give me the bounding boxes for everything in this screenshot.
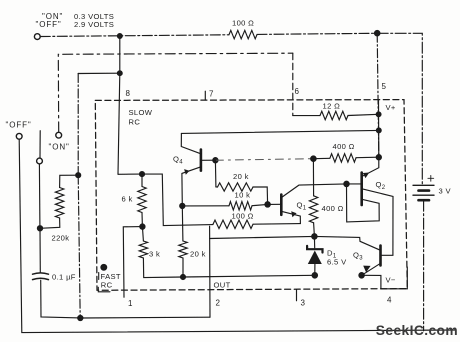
wire pin8 node to 6k xyxy=(118,173,142,175)
wire zener-top rail to Q3 collector xyxy=(210,236,381,250)
leads 20k vertical xyxy=(181,206,184,241)
battery 3V xyxy=(413,184,434,186)
svg-text:100 Ω: 100 Ω xyxy=(232,19,254,28)
switch common terminal xyxy=(37,158,43,164)
capacitor 0.1uF top lead xyxy=(39,228,41,272)
node V+ y130 xyxy=(376,128,381,133)
leads 400 horizontal xyxy=(313,157,330,159)
svg-text:20 k: 20 k xyxy=(233,172,249,181)
svg-text:6 k: 6 k xyxy=(122,195,133,204)
svg-text:3: 3 xyxy=(301,299,306,308)
svg-text:7: 7 xyxy=(209,90,214,99)
node Q4 emitter / 10k xyxy=(180,203,185,208)
node 220k bottom / cap top xyxy=(37,226,42,231)
node top 100ohm-left xyxy=(117,34,122,39)
wire x78 down to out-return xyxy=(78,175,80,318)
capacitor bottom lead xyxy=(41,280,81,318)
svg-text:20 k: 20 k xyxy=(190,250,206,259)
svg-text:0.1 µF: 0.1 µF xyxy=(52,273,76,282)
resistor 10k xyxy=(229,202,252,210)
svg-text:2.9 VOLTS: 2.9 VOLTS xyxy=(74,20,114,29)
switch OFF terminal xyxy=(16,133,22,139)
node bottom return xyxy=(78,315,83,320)
svg-text:4: 4 xyxy=(387,296,392,305)
svg-text:100 Ω: 100 Ω xyxy=(232,212,254,221)
node Q3 emitter xyxy=(359,273,364,278)
svg-text:RC: RC xyxy=(101,280,113,289)
svg-text:10 k: 10 k xyxy=(235,191,251,200)
svg-text:SLOW: SLOW xyxy=(129,108,153,117)
svg-text:"OFF": "OFF" xyxy=(6,121,32,130)
svg-text:V+: V+ xyxy=(386,103,396,112)
resistor 20k vertical xyxy=(179,241,187,258)
capacitor plates xyxy=(33,273,49,274)
wire Vminus rail xyxy=(183,275,315,277)
svg-text:400 Ω: 400 Ω xyxy=(322,204,344,213)
wire out-return to pin2 corner xyxy=(80,316,210,319)
wire V+ vertical pin5 xyxy=(377,33,379,157)
zener diode D1 xyxy=(313,236,315,248)
node top V+ xyxy=(375,31,380,36)
svg-text:OUT: OUT xyxy=(214,281,231,290)
node Q4 base xyxy=(213,158,218,163)
svg-text:"OFF": "OFF" xyxy=(36,20,62,29)
terminal ON open circle xyxy=(56,132,62,138)
leads 3k xyxy=(142,227,143,241)
node 6k bottom xyxy=(140,224,145,229)
transistor Q2 xyxy=(360,173,363,205)
wire 220k top to node xyxy=(60,175,79,187)
svg-text:SeekIC.com: SeekIC.com xyxy=(376,323,458,338)
leads 20k horizontal xyxy=(214,160,217,187)
node Q1 base xyxy=(265,202,270,207)
svg-text:5: 5 xyxy=(382,82,387,91)
transistor Q1 xyxy=(280,195,283,215)
wire common down to 220k node xyxy=(38,164,41,226)
node zener top xyxy=(312,234,317,239)
svg-text:8: 8 xyxy=(126,89,131,98)
resistor 400 horizontal top xyxy=(330,154,356,162)
node 400 top xyxy=(311,156,316,161)
pin 7 tick xyxy=(204,91,206,100)
svg-text:3 V: 3 V xyxy=(439,187,452,196)
resistor 12 ohm xyxy=(320,111,348,119)
wire 12ohm to V+ line xyxy=(348,114,379,115)
node 220k top xyxy=(76,173,81,178)
wire Q4 collector to V+ y130 xyxy=(181,130,378,133)
transistor Q3 xyxy=(379,246,382,266)
wire 100mid right to Q1 emitter xyxy=(253,223,300,226)
terminal top-left open circle xyxy=(34,34,40,40)
leads 400 vertical xyxy=(312,159,314,196)
node 6k top xyxy=(140,172,145,177)
resistor 6k xyxy=(138,187,146,213)
resistor 400 vertical xyxy=(309,196,317,223)
resistor 220k xyxy=(55,188,63,219)
wire 6k-top node right and down xyxy=(142,174,213,226)
pin 3 tick xyxy=(296,290,298,301)
svg-text:6: 6 xyxy=(295,87,300,96)
IC dashed box xyxy=(95,100,407,291)
wire top right of 100 ohm xyxy=(257,33,377,34)
wire node to 220k bottom corner xyxy=(40,218,60,228)
wire vertical x120 from top node xyxy=(119,36,121,73)
resistor 20k horizontal xyxy=(218,183,254,191)
wire pin8 vertical from node y73 xyxy=(118,73,120,174)
wire y73 left xyxy=(78,72,120,74)
leads 10k xyxy=(182,205,229,207)
wire ON switch up and right to pin 6 xyxy=(58,53,292,132)
svg-text:"ON": "ON" xyxy=(49,143,70,152)
leads 6k xyxy=(141,174,143,186)
svg-text:V−: V− xyxy=(386,276,396,285)
wire Q4 base node to 400 node xyxy=(215,159,313,161)
wire top from terminal to 100 ohm resistor xyxy=(40,35,229,37)
svg-text:12 Ω: 12 Ω xyxy=(323,102,341,111)
switch common stub above xyxy=(39,131,41,158)
node V+ y157 xyxy=(376,155,381,160)
svg-text:1: 1 xyxy=(128,299,133,308)
wire top right corner xyxy=(377,33,422,185)
node zener bottom xyxy=(312,273,317,278)
wire OFF down to bottom rail xyxy=(19,139,456,332)
svg-text:400 Ω: 400 Ω xyxy=(333,142,355,151)
wire pin6 down into box xyxy=(292,53,294,115)
node 12ohm V+ xyxy=(376,112,381,117)
resistor 100 ohm top xyxy=(229,30,257,38)
svg-text:2: 2 xyxy=(216,299,221,308)
resistor 3k xyxy=(139,241,147,258)
node 20k bottom xyxy=(181,275,186,280)
svg-text:6.5 V: 6.5 V xyxy=(327,258,347,267)
wire V- out pin4 xyxy=(362,267,408,289)
transistor Q4 xyxy=(200,150,203,171)
svg-text:220k: 220k xyxy=(52,234,70,243)
svg-text:3 k: 3 k xyxy=(149,250,160,259)
wire to pin1 xyxy=(123,227,142,298)
resistor 100 ohm middle xyxy=(213,220,253,228)
svg-text:RC: RC xyxy=(129,118,141,127)
wire out pin2 vertical xyxy=(209,226,211,317)
node x120 y73 xyxy=(117,71,122,76)
wire x78 vertical down xyxy=(77,74,79,176)
fast rc bullet xyxy=(101,264,107,270)
